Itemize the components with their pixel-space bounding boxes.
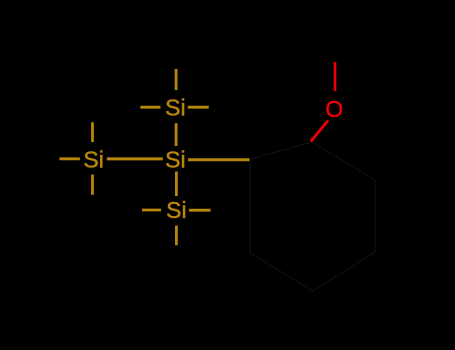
- bond Si2-Si1 vertical: [175, 123, 178, 146]
- bond Si4(bottom TMS) methyl down: [175, 226, 178, 246]
- bond Si3(left TMS) methyl down: [91, 175, 94, 195]
- bond Si3(left TMS) methyl up: [91, 122, 94, 142]
- bond Si2(top TMS) methyl right: [188, 106, 209, 109]
- svg-text:Si: Si: [83, 147, 103, 173]
- ring bond C4-C5 (faint): [313, 252, 375, 291]
- svg-text:Si: Si: [166, 197, 186, 223]
- bond Si1-C right: [188, 158, 250, 161]
- bond O-CH3 (methoxy methyl): [334, 62, 337, 91]
- bond Si2(top TMS) methyl up: [175, 69, 178, 90]
- ring bond C3-C4 (faint): [374, 180, 376, 252]
- bond Si4(bottom TMS) methyl right: [189, 209, 211, 212]
- svg-text:O: O: [325, 96, 343, 122]
- bond Si4(bottom TMS) methyl left: [142, 209, 161, 212]
- ring bond C2-C3 (faint): [312, 142, 375, 180]
- bond O-C2 (to ring carbon): [311, 121, 328, 142]
- bond Si2(top TMS) methyl left: [140, 106, 160, 109]
- bond Si3-Si1 horizontal: [107, 157, 163, 160]
- bond Si1-Si4 vertical: [175, 172, 178, 197]
- svg-text:Si: Si: [165, 147, 185, 173]
- ring bond C5-C6 (faint): [250, 253, 313, 291]
- ring bond C6-C1 (faint): [249, 161, 251, 253]
- svg-text:Si: Si: [165, 95, 185, 121]
- bond Si3(left TMS) methyl left: [59, 157, 80, 160]
- ring bond C1-C2 (faint carbon skeleton): [251, 142, 312, 159]
